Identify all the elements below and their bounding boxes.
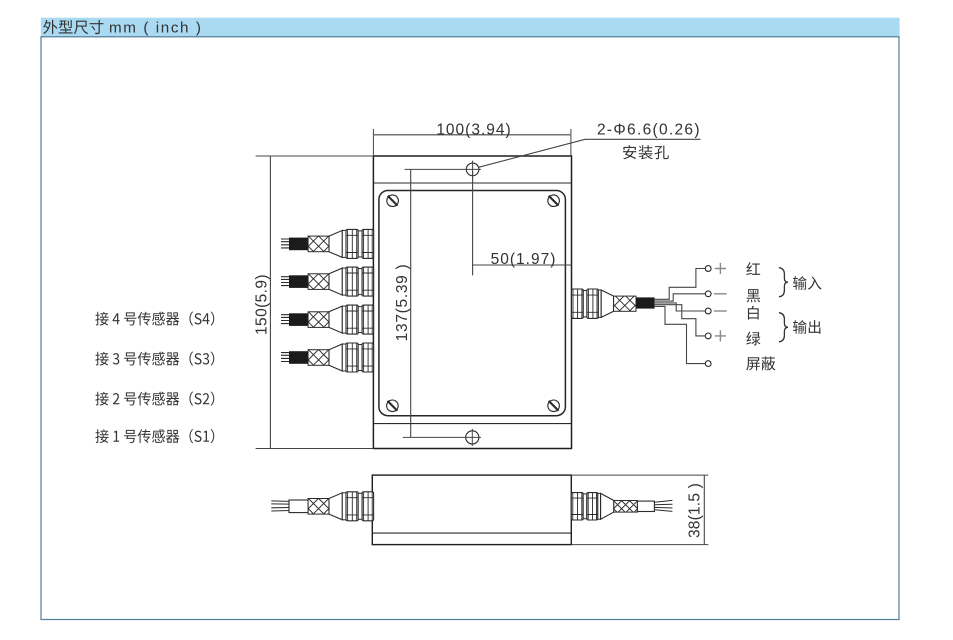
- wire label 黑: [747, 289, 760, 302]
- dimension 38(1.5) line: [703, 475, 705, 544]
- junction box outer body: [373, 156, 571, 449]
- wire to shield terminal: [655, 306, 706, 363]
- bottom mounting hole: [403, 429, 481, 446]
- terminal circle black: [705, 291, 711, 297]
- label 接 1 号传感器（S1）: [95, 429, 214, 443]
- terminal circle white: [705, 308, 711, 314]
- wire label 白: [748, 306, 759, 320]
- output cable sheath: [636, 297, 655, 308]
- svg-text:150(5.9): 150(5.9): [253, 274, 270, 335]
- label 接 3 号传感器（S3）: [95, 351, 214, 365]
- plus sign red: [715, 263, 726, 274]
- side view base line: [372, 532, 571, 534]
- output cable gland: [572, 289, 614, 318]
- dimension 150(5.9) extension lines: [256, 156, 374, 449]
- dimension 100(3.94) extension lines: [373, 129, 571, 156]
- output cable braid: [614, 296, 636, 311]
- side view cable wires: [654, 500, 672, 511]
- sensor connector S3 plug: [281, 267, 374, 296]
- svg-text:50(1.97): 50(1.97): [491, 251, 557, 268]
- wire label 红: [746, 262, 760, 275]
- cover screw top-left: [387, 195, 399, 207]
- side view input connector plug: [271, 492, 373, 521]
- label 接 2 号传感器（S2）: [95, 391, 214, 405]
- dimension 38(1.5) extension lines: [571, 475, 708, 544]
- terminal circle green: [705, 333, 711, 339]
- wire to white terminal: [655, 303, 706, 311]
- top mounting hole: [405, 161, 481, 179]
- side view output cable gland: [571, 493, 614, 520]
- sensor connector S1 plug: [281, 343, 374, 372]
- terminal circle shield: [705, 361, 711, 367]
- minus sign black: [714, 293, 727, 295]
- minus sign white: [714, 310, 727, 312]
- section header bar: [41, 18, 900, 37]
- group label 输出: [793, 320, 820, 334]
- svg-text:38(1.5 ): 38(1.5 ): [687, 483, 704, 538]
- sensor connector S4 plug: [281, 229, 374, 258]
- svg-text:137(5.39 ): 137(5.39 ): [394, 264, 411, 342]
- cover screw top-right: [548, 195, 560, 207]
- group label 输入: [793, 276, 821, 290]
- bottom flange line: [373, 423, 571, 425]
- cover plate rounded rectangle: [379, 191, 566, 416]
- dimension 137(5.39) line: [410, 169, 412, 437]
- dimension 150(5.9) line: [269, 156, 271, 449]
- svg-text:100(3.94): 100(3.94): [436, 122, 511, 139]
- dimension 100(3.94) line: [374, 134, 570, 136]
- side view cable braid: [614, 501, 638, 513]
- side view body: [372, 475, 571, 544]
- wire to black terminal: [655, 294, 706, 301]
- top flange line: [373, 182, 571, 184]
- terminal circle red: [705, 266, 711, 272]
- cover screw bottom-right: [548, 400, 560, 412]
- svg-text:2-Φ6.6(0.26): 2-Φ6.6(0.26): [597, 122, 701, 139]
- wire to green terminal: [655, 305, 706, 336]
- svg-text:mm ( inch ): mm ( inch ): [109, 20, 203, 37]
- brace output group: [779, 313, 788, 342]
- dimension 50(1.97) line: [473, 171, 572, 275]
- note text 安装孔: [623, 145, 669, 159]
- sensor connector S2 plug: [281, 305, 374, 334]
- header title 外型尺寸: [43, 20, 103, 34]
- wire label 屏蔽: [746, 357, 775, 371]
- leader line to mounting hole: [479, 139, 701, 167]
- wire to red terminal: [655, 269, 706, 300]
- label 接 4 号传感器（S4）: [95, 311, 214, 325]
- plus sign green: [715, 330, 726, 341]
- cover screw bottom-left: [387, 400, 399, 412]
- side view cable jacket: [637, 501, 654, 511]
- brace input group: [779, 268, 788, 297]
- wire label 绿: [746, 332, 760, 346]
